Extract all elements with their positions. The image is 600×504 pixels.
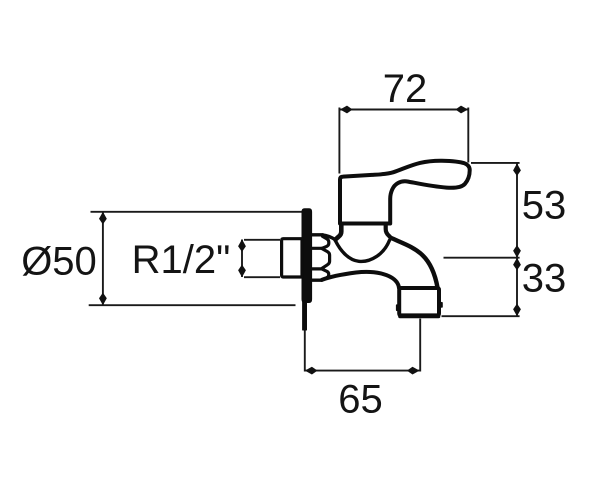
extension line R1/2 top <box>244 239 280 241</box>
dimension R1/2 bottom arrow <box>238 265 246 278</box>
dimension D50 top arrow <box>99 212 107 225</box>
wall plate <box>302 209 312 303</box>
flange bottom lip <box>312 279 322 282</box>
extension line 65 right <box>419 319 421 372</box>
dimension 53 bottom arrow <box>513 245 521 258</box>
flange divider upper <box>312 247 322 250</box>
aerator <box>399 288 439 315</box>
wall plate lower tail <box>303 300 307 330</box>
svg-text:R1/2": R1/2" <box>132 238 231 282</box>
dimension D50 line <box>102 212 104 305</box>
extension line 33 bottom <box>442 315 520 317</box>
body saddle curve <box>335 240 389 261</box>
dimension R1/2 line <box>241 240 243 278</box>
dimension 65 right arrow <box>407 367 420 375</box>
dimension 33 top arrow <box>513 258 521 271</box>
flange lip to bonnet line <box>323 235 336 240</box>
svg-text:Ø50: Ø50 <box>21 240 97 284</box>
aerator bottom rim <box>400 315 439 319</box>
dimension 72 left arrow <box>340 106 353 114</box>
dimension R1/2 top arrow <box>238 239 246 252</box>
dimension 65 line <box>305 370 420 372</box>
handle base and lever outline <box>340 161 470 224</box>
spout outer curve <box>391 238 438 288</box>
aerator right nub <box>441 303 443 307</box>
extension line 53/33 middle <box>444 257 520 259</box>
flange lobe 3 <box>322 269 329 280</box>
extension line 65 left <box>304 330 306 372</box>
inlet pipe R1/2 <box>282 239 302 277</box>
dimension 72 line <box>340 109 468 111</box>
dimension D50 bottom arrow <box>99 293 107 306</box>
dimension 33 bottom arrow <box>513 304 521 317</box>
dimension 53/33 line <box>516 163 518 316</box>
bonnet right side <box>386 224 391 238</box>
dimension 72 right arrow <box>455 106 468 114</box>
extension line D50 bottom <box>89 304 296 306</box>
extension line D50 top <box>91 211 307 213</box>
dimension 53 top arrow <box>513 163 521 176</box>
svg-text:53: 53 <box>522 184 567 228</box>
flange lobe 1 <box>322 236 329 248</box>
bonnet left side <box>335 224 341 240</box>
svg-text:72: 72 <box>383 67 428 111</box>
flange divider lower <box>312 267 322 270</box>
flange lobe 2 <box>322 249 330 269</box>
dimension 65 left arrow <box>305 367 318 375</box>
aerator left nub <box>396 305 398 310</box>
spout underside wave <box>322 272 399 288</box>
extension line 53 top <box>471 162 520 164</box>
flange top lip <box>312 233 323 236</box>
extension line 72 left <box>338 108 340 174</box>
svg-text:65: 65 <box>338 378 383 422</box>
extension line 72 right <box>467 108 469 163</box>
extension line R1/2 bottom <box>244 276 280 278</box>
svg-text:33: 33 <box>522 257 567 301</box>
